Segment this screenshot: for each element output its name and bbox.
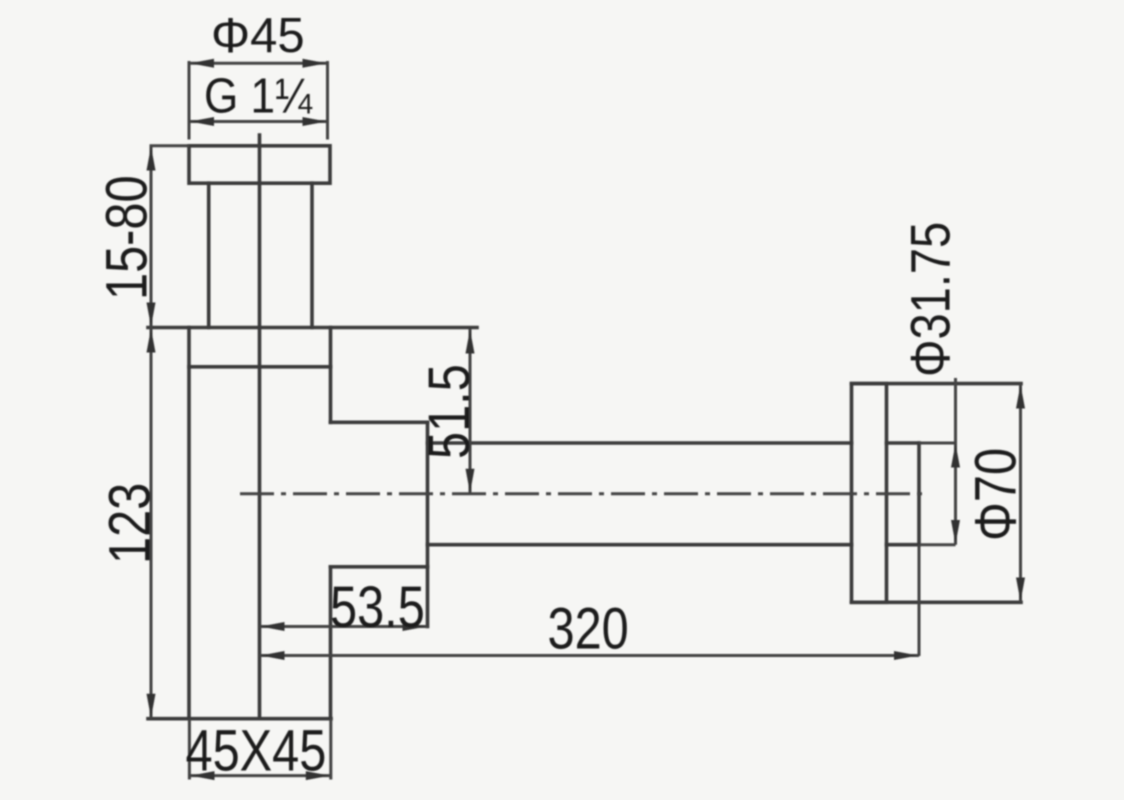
svg-text:Φ45: Φ45 <box>211 9 305 63</box>
svg-text:45X45: 45X45 <box>186 720 327 784</box>
svg-text:Φ31.75: Φ31.75 <box>899 222 962 377</box>
svg-text:123: 123 <box>99 483 163 564</box>
svg-text:G 1¼: G 1¼ <box>204 68 313 123</box>
svg-text:Φ70: Φ70 <box>965 448 1029 541</box>
svg-text:51.5: 51.5 <box>418 364 482 459</box>
svg-text:53.5: 53.5 <box>330 576 425 640</box>
svg-text:15-80: 15-80 <box>96 175 160 300</box>
svg-text:320: 320 <box>548 598 629 662</box>
